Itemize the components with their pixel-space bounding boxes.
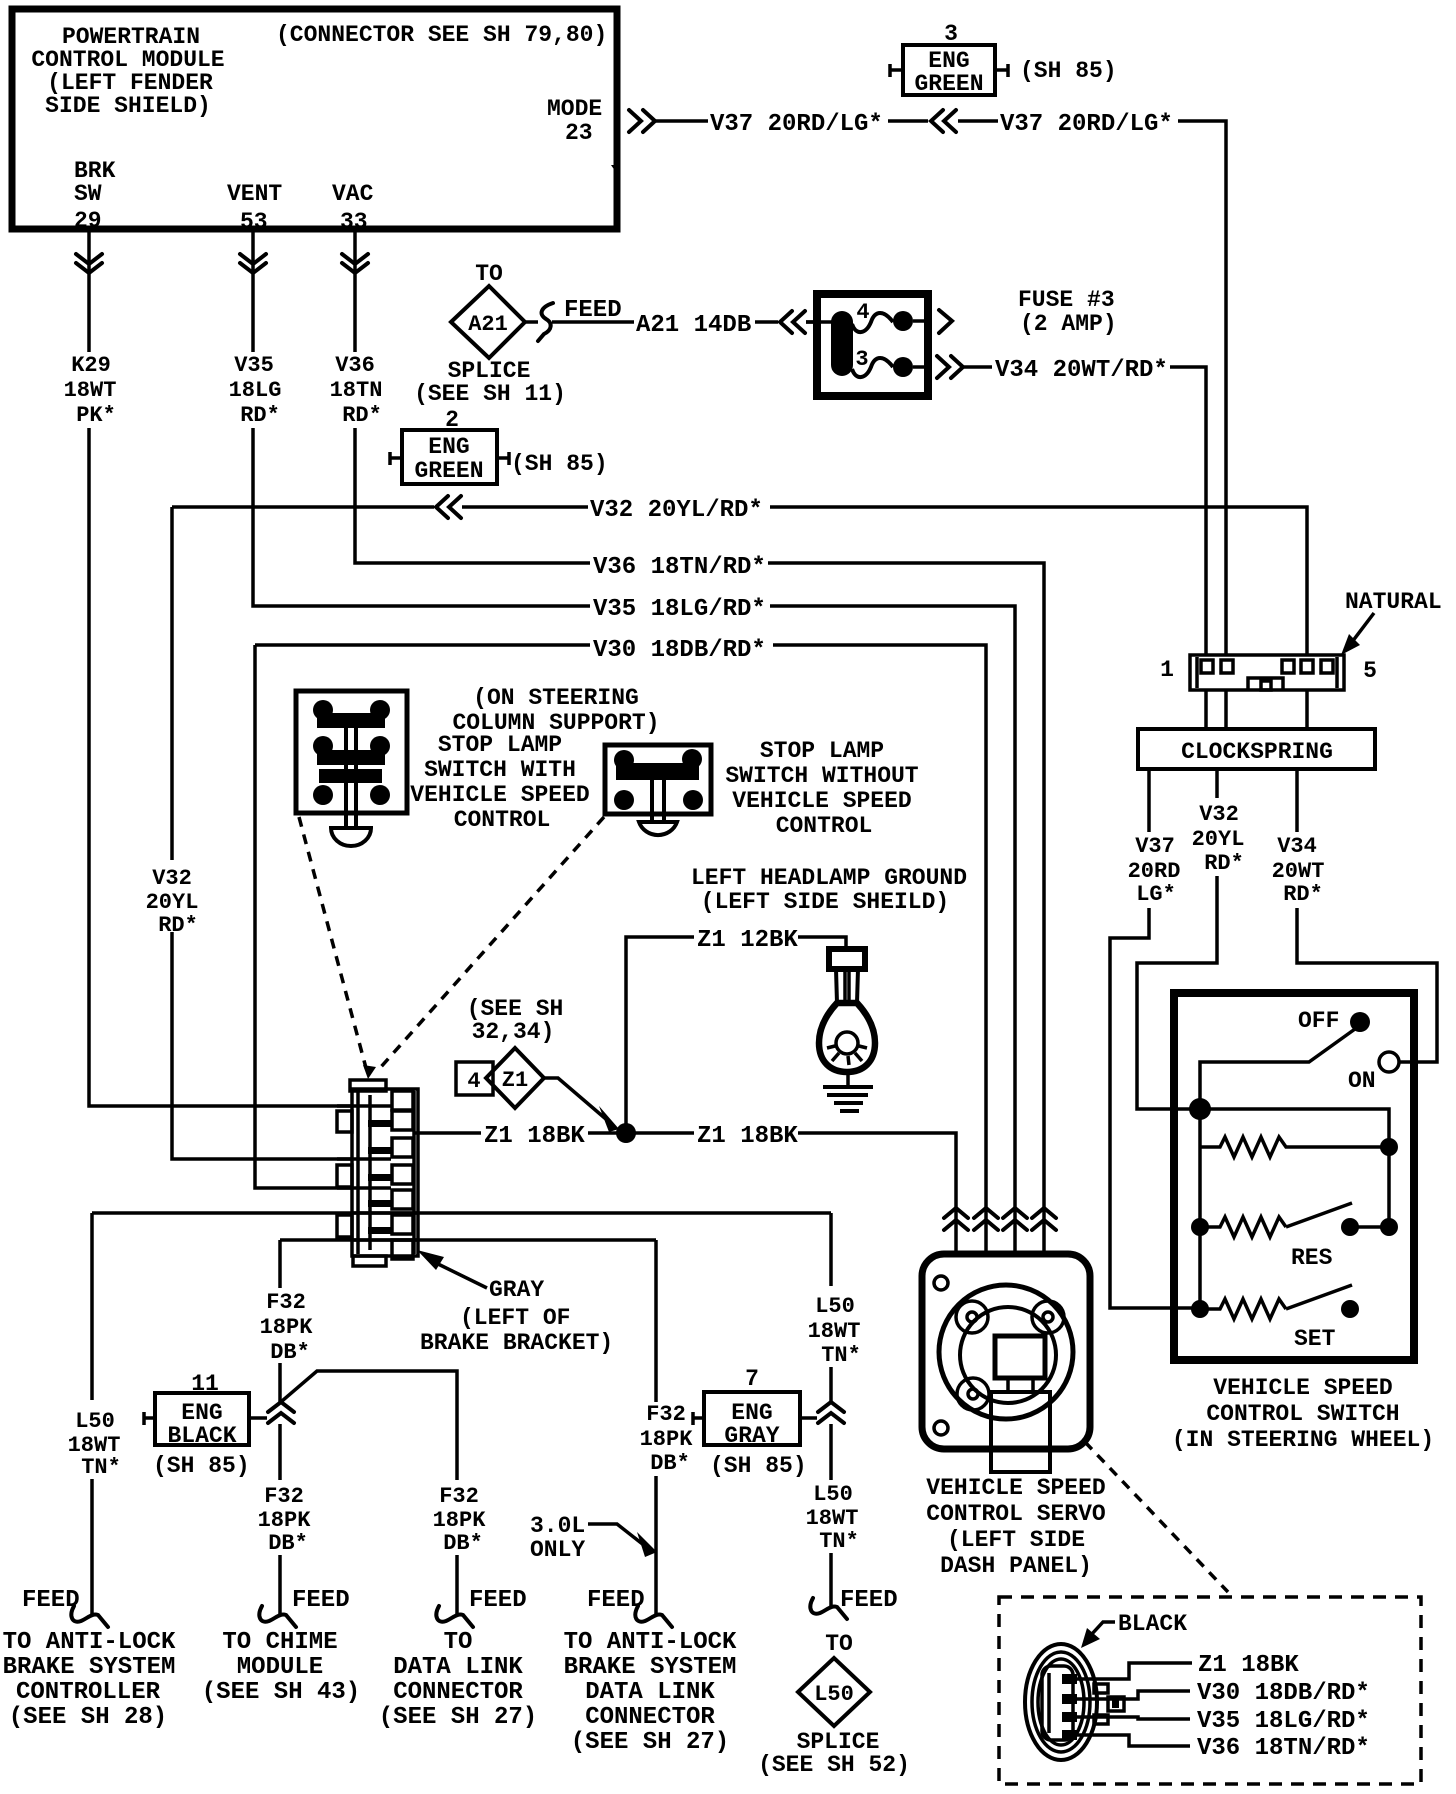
connector C BLACK 4-way servo (1025, 1644, 1124, 1760)
svg-text:DB*: DB* (443, 1531, 483, 1556)
svg-text:SW: SW (74, 181, 102, 207)
svg-text:ENG: ENG (428, 434, 469, 460)
svg-text:BLACK: BLACK (167, 1423, 236, 1449)
svg-text:PK*: PK* (76, 403, 116, 428)
dashed lead S2 to connector (380, 817, 604, 1068)
svg-text:ONLY: ONLY (530, 1537, 585, 1563)
wire V36 18TN RD* vertical (355, 229, 1044, 1254)
label V32 20YL RD* (146, 866, 199, 938)
svg-text:CLOCKSPRING: CLOCKSPRING (1181, 739, 1333, 765)
label VSC switch (1172, 1375, 1434, 1453)
connector C NATURAL 5-way (1160, 655, 1377, 690)
svg-text:LG*: LG* (1136, 882, 1176, 907)
svg-text:4: 4 (856, 300, 869, 325)
svg-text:RD*: RD* (1283, 882, 1323, 907)
svg-text:(SEE SH 43): (SEE SH 43) (202, 1679, 360, 1706)
svg-text:(SEE SH 27): (SEE SH 27) (379, 1704, 537, 1731)
svg-text:SWITCH WITHOUT: SWITCH WITHOUT (725, 763, 918, 789)
svg-text:(SH 85): (SH 85) (153, 1453, 250, 1479)
svg-text:GREEN: GREEN (414, 458, 483, 484)
svg-text:23: 23 (565, 120, 593, 146)
svg-text:V37: V37 (1135, 834, 1175, 859)
svg-text:(2 AMP): (2 AMP) (1020, 311, 1117, 337)
svg-text:MODULE: MODULE (237, 1654, 323, 1681)
svg-text:(SEE SH 28): (SEE SH 28) (9, 1704, 167, 1731)
resistor R1 (1200, 1137, 1398, 1227)
svg-text:GRAY: GRAY (489, 1277, 544, 1303)
svg-text:FEED: FEED (469, 1587, 527, 1614)
svg-text:Z1 12BK: Z1 12BK (697, 927, 798, 954)
resistor R2 RES + switch (1191, 1203, 1398, 1271)
svg-text:F32: F32 (646, 1402, 686, 1427)
svg-text:ON: ON (1348, 1068, 1376, 1094)
svg-text:20RD: 20RD (1128, 859, 1181, 884)
svg-text:V32: V32 (1199, 802, 1239, 827)
svg-text:VEHICLE SPEED: VEHICLE SPEED (1213, 1375, 1392, 1401)
wire V36 18TN/RD* detail (1077, 1735, 1370, 1762)
svg-text:1: 1 (1160, 657, 1174, 683)
label left headlamp ground (691, 865, 967, 915)
svg-text:DASH PANEL): DASH PANEL) (940, 1553, 1092, 1579)
connector chevrons on V35 (240, 254, 266, 273)
svg-text:VEHICLE SPEED: VEHICLE SPEED (926, 1475, 1105, 1501)
wire Z1 18BK detail (1077, 1652, 1299, 1679)
wire V34 20WT RD* below clockspring (1272, 769, 1437, 1062)
svg-text:TO ANTI-LOCK: TO ANTI-LOCK (3, 1629, 176, 1656)
svg-text:GRAY: GRAY (724, 1423, 779, 1449)
svg-text:V34: V34 (1277, 834, 1317, 859)
svg-text:SWITCH WITH: SWITCH WITH (424, 757, 576, 783)
svg-text:CONTROL: CONTROL (454, 807, 551, 833)
svg-text:V32: V32 (152, 866, 192, 891)
svg-text:V35 18LG/RD*: V35 18LG/RD* (1197, 1708, 1370, 1735)
label NATURAL (1341, 589, 1442, 655)
svg-text:18TN: 18TN (330, 378, 383, 403)
svg-text:CONNECTOR: CONNECTOR (393, 1679, 523, 1706)
svg-text:TO ANTI-LOCK: TO ANTI-LOCK (564, 1629, 737, 1656)
svg-text:L50: L50 (813, 1482, 853, 1507)
svg-text:VENT: VENT (227, 181, 282, 207)
svg-text:MODE: MODE (547, 96, 602, 122)
connector << on V37 (931, 110, 956, 132)
junction node VSC common (1189, 1098, 1211, 1120)
fuse pin4 arrow (939, 310, 952, 333)
svg-text:K29: K29 (71, 353, 111, 378)
svg-text:VEHICLE SPEED: VEHICLE SPEED (410, 782, 589, 808)
svg-text:TN*: TN* (81, 1455, 121, 1480)
svg-text:Z1 18BK: Z1 18BK (484, 1123, 585, 1150)
svg-text:18WT: 18WT (64, 378, 117, 403)
svg-text:4: 4 (467, 1069, 480, 1094)
svg-text:BRAKE BRACKET): BRAKE BRACKET) (420, 1330, 613, 1356)
label to ABS controller (3, 1629, 176, 1731)
svg-text:(SEE SH 52): (SEE SH 52) (758, 1752, 910, 1778)
svg-text:L50: L50 (75, 1409, 115, 1434)
svg-text:BLACK: BLACK (1118, 1611, 1187, 1637)
svg-text:A21: A21 (468, 312, 508, 337)
svg-text:F32: F32 (439, 1484, 479, 1509)
junction node Z1 (616, 1123, 636, 1143)
svg-text:V30 18DB/RD*: V30 18DB/RD* (1197, 1680, 1370, 1707)
svg-text:OFF: OFF (1298, 1008, 1339, 1034)
PCM module box U1 (12, 9, 620, 229)
svg-text:DATA LINK: DATA LINK (585, 1679, 715, 1706)
connector C7 ENG GRAY (693, 1366, 817, 1479)
feed squiggle A21 (538, 303, 553, 341)
svg-text:Z1: Z1 (502, 1068, 528, 1093)
svg-text:(LEFT SIDE: (LEFT SIDE (947, 1527, 1085, 1553)
arrow from Z1 splice to junction (544, 1078, 619, 1132)
svg-text:18WT: 18WT (808, 1319, 861, 1344)
svg-text:5: 5 (1363, 658, 1377, 684)
svg-text:TO: TO (475, 261, 503, 287)
PCM labels (31, 22, 607, 235)
svg-text:V35: V35 (234, 353, 274, 378)
svg-text:CONTROL: CONTROL (776, 813, 873, 839)
connector << on V32 (436, 496, 461, 518)
svg-text:TN*: TN* (819, 1529, 859, 1554)
wire K29 BRK SW (89, 229, 353, 1106)
wire V35 18LG/RD* detail (1077, 1708, 1370, 1735)
svg-text:F32: F32 (266, 1290, 306, 1315)
svg-text:CONTROL SERVO: CONTROL SERVO (926, 1501, 1105, 1527)
svg-text:V30 18DB/RD*: V30 18DB/RD* (593, 637, 766, 664)
svg-text:Z1 18BK: Z1 18BK (697, 1123, 798, 1150)
wire A21 14DB (525, 297, 816, 339)
svg-text:RD*: RD* (1204, 851, 1244, 876)
svg-text:(SH 85): (SH 85) (1020, 58, 1117, 84)
svg-text:(SEE SH 11): (SEE SH 11) (414, 381, 566, 407)
stop lamp switch S1 with VSC (296, 691, 407, 846)
pin 23 MODE connector >> (629, 110, 655, 132)
clockspring box (1138, 690, 1375, 769)
svg-text:V37 20RD/LG*: V37 20RD/LG* (1000, 111, 1173, 138)
svg-text:(CONNECTOR SEE SH 79,80): (CONNECTOR SEE SH 79,80) (276, 22, 607, 48)
svg-text:L50: L50 (814, 1682, 854, 1707)
label BLACK (1081, 1611, 1187, 1648)
svg-text:TN*: TN* (821, 1343, 861, 1368)
wire V32 20YL/RD* top (172, 497, 1307, 655)
svg-text:NATURAL: NATURAL (1345, 589, 1442, 615)
svg-text:Z1 18BK: Z1 18BK (1198, 1652, 1299, 1679)
svg-text:SET: SET (1294, 1326, 1336, 1352)
note on steering column (452, 685, 659, 736)
splice L50 diamond (758, 1631, 910, 1778)
svg-text:20WT: 20WT (1272, 859, 1325, 884)
svg-text:FEED: FEED (587, 1587, 645, 1614)
svg-text:V36 18TN/RD*: V36 18TN/RD* (593, 554, 766, 581)
svg-text:(SEE SH 27): (SEE SH 27) (571, 1729, 729, 1756)
wire L50 left branch (22, 1213, 121, 1627)
wire V37 20RD LG* below clockspring (1110, 769, 1200, 1308)
label K29 18WT PK* (64, 353, 117, 428)
connector C2 ENG GREEN (390, 407, 608, 484)
switch OFF/ON (1200, 1008, 1399, 1109)
svg-text:20YL: 20YL (146, 890, 199, 915)
svg-text:BRAKE SYSTEM: BRAKE SYSTEM (3, 1654, 176, 1681)
svg-text:L50: L50 (815, 1294, 855, 1319)
arrowhead at connector top (363, 1065, 376, 1079)
label FUSE #3 (1018, 287, 1117, 337)
svg-text:(LEFT SIDE SHEILD): (LEFT SIDE SHEILD) (701, 889, 949, 915)
svg-text:CONNECTOR: CONNECTOR (585, 1704, 715, 1731)
connector C11 ENG BLACK (144, 1371, 267, 1479)
svg-text:18PK: 18PK (258, 1508, 312, 1533)
svg-text:VAC: VAC (332, 181, 374, 207)
wire Z1 18BK (413, 1123, 956, 1254)
svg-text:FEED: FEED (22, 1587, 80, 1614)
svg-text:32,34): 32,34) (472, 1019, 555, 1045)
connector chevrons on L50 (818, 1402, 844, 1423)
wire V35 18LG RD* vertical (253, 229, 1015, 1254)
fuse F3 box (806, 294, 929, 396)
svg-text:V32 20YL/RD*: V32 20YL/RD* (590, 497, 763, 524)
svg-text:STOP LAMP: STOP LAMP (438, 732, 562, 758)
wire V32 vertical left (172, 507, 353, 1159)
svg-text:RD*: RD* (342, 403, 382, 428)
svg-text:CONTROLLER: CONTROLLER (16, 1679, 161, 1706)
wire F32 from connector (280, 1238, 656, 1242)
lamp socket ground symbol (819, 949, 875, 1111)
svg-text:3: 3 (855, 347, 868, 372)
label 3.0L only (530, 1513, 657, 1563)
wire V30 18DB/RD* (255, 637, 986, 1254)
svg-text:7: 7 (745, 1366, 759, 1392)
svg-text:FUSE #3: FUSE #3 (1018, 287, 1115, 313)
svg-text:DB*: DB* (650, 1451, 690, 1476)
connector chevrons on F32 (268, 1402, 294, 1423)
svg-text:GREEN: GREEN (914, 71, 983, 97)
wire L50 right branch (806, 1213, 898, 1619)
svg-text:3.0L: 3.0L (530, 1513, 585, 1539)
svg-text:RD*: RD* (240, 403, 280, 428)
wire V37 20RD/LG* top (655, 111, 1226, 655)
svg-text:18LG: 18LG (229, 378, 282, 403)
svg-text:18PK: 18PK (640, 1427, 694, 1452)
wire F32 middle branch (282, 1371, 527, 1627)
label to ABS data link (564, 1629, 737, 1756)
svg-text:DATA LINK: DATA LINK (393, 1654, 523, 1681)
svg-text:(LEFT OF: (LEFT OF (460, 1305, 570, 1331)
label V36 18TN RD* (330, 353, 383, 428)
svg-text:DB*: DB* (270, 1340, 310, 1365)
svg-text:V37 20RD/LG*: V37 20RD/LG* (710, 111, 883, 138)
wire V30 18DB/RD* detail (1077, 1680, 1370, 1707)
svg-text:CONTROL SWITCH: CONTROL SWITCH (1206, 1401, 1399, 1427)
connector C GRAY 7-way (337, 1080, 418, 1266)
wire V34 20WT/RD* (995, 357, 1206, 655)
svg-text:RES: RES (1291, 1245, 1333, 1271)
wire VSC common bus (1200, 1109, 1389, 1309)
splice Z1 diamond (456, 996, 563, 1108)
label stop lamp switch S1 (410, 732, 589, 833)
svg-text:DB*: DB* (268, 1531, 308, 1556)
svg-text:V35 18LG/RD*: V35 18LG/RD* (593, 596, 766, 623)
svg-text:TO CHIME: TO CHIME (222, 1629, 337, 1656)
arrow GRAY (417, 1250, 487, 1288)
dashed detail box (999, 1597, 1421, 1784)
splice A21 diamond (414, 261, 566, 407)
svg-text:TO: TO (444, 1629, 473, 1656)
svg-text:STOP LAMP: STOP LAMP (760, 738, 884, 764)
fuse pin3 connector >> (937, 356, 992, 378)
dashed lead S1 to connector (299, 817, 366, 1068)
svg-text:VEHICLE SPEED: VEHICLE SPEED (732, 788, 911, 814)
svg-text:(ON STEERING: (ON STEERING (473, 685, 639, 711)
connector C3 ENG GREEN (890, 21, 1117, 97)
connector chevrons on servo wires (944, 1208, 1056, 1230)
svg-text:(SH 85): (SH 85) (710, 1453, 807, 1479)
wire Z1 12BK (626, 927, 846, 1124)
label VSC servo (926, 1475, 1105, 1579)
wire F32 right branch (587, 1240, 693, 1627)
VSC switch box (1174, 993, 1414, 1360)
svg-text:18WT: 18WT (806, 1506, 859, 1531)
wire F32 left branch (258, 1240, 350, 1627)
label to chime module (202, 1629, 360, 1706)
label GRAY location (420, 1277, 613, 1356)
svg-text:18PK: 18PK (433, 1508, 487, 1533)
stop lamp switch S2 without VSC (605, 745, 711, 835)
svg-text:SIDE SHIELD): SIDE SHIELD) (45, 93, 211, 119)
svg-text:20YL: 20YL (1192, 827, 1245, 852)
VSC servo body (922, 1254, 1090, 1472)
svg-text:TO: TO (825, 1631, 853, 1657)
svg-text:18PK: 18PK (260, 1315, 314, 1340)
svg-text:V34 20WT/RD*: V34 20WT/RD* (995, 357, 1168, 384)
svg-text:FEED: FEED (840, 1587, 898, 1614)
svg-text:FEED: FEED (292, 1587, 350, 1614)
svg-text:(SH 85): (SH 85) (511, 451, 608, 477)
svg-text:FEED: FEED (564, 297, 622, 324)
svg-text:V36 18TN/RD*: V36 18TN/RD* (1197, 1735, 1370, 1762)
wire L50 long (92, 1211, 831, 1215)
wire V32 20YL RD* below clockspring (1137, 769, 1244, 1109)
connector << on A21 (780, 311, 805, 333)
svg-text:V36: V36 (335, 353, 375, 378)
label stop lamp switch S2 (725, 738, 918, 839)
connector chevrons on K29 (76, 254, 102, 273)
svg-text:(IN STEERING WHEEL): (IN STEERING WHEEL) (1172, 1427, 1434, 1453)
resistor R3 SET + switch (1191, 1285, 1359, 1352)
svg-text:RD*: RD* (158, 913, 198, 938)
svg-text:F32: F32 (264, 1484, 304, 1509)
svg-text:LEFT HEADLAMP GROUND: LEFT HEADLAMP GROUND (691, 865, 967, 891)
svg-text:A21 14DB: A21 14DB (636, 312, 751, 339)
svg-text:BRAKE SYSTEM: BRAKE SYSTEM (564, 1654, 737, 1681)
connector chevrons on V36 (342, 254, 368, 273)
dashed lead servo to detail (1085, 1442, 1228, 1592)
label to data link connector (379, 1629, 537, 1731)
label V35 18LG RD* (229, 353, 282, 428)
